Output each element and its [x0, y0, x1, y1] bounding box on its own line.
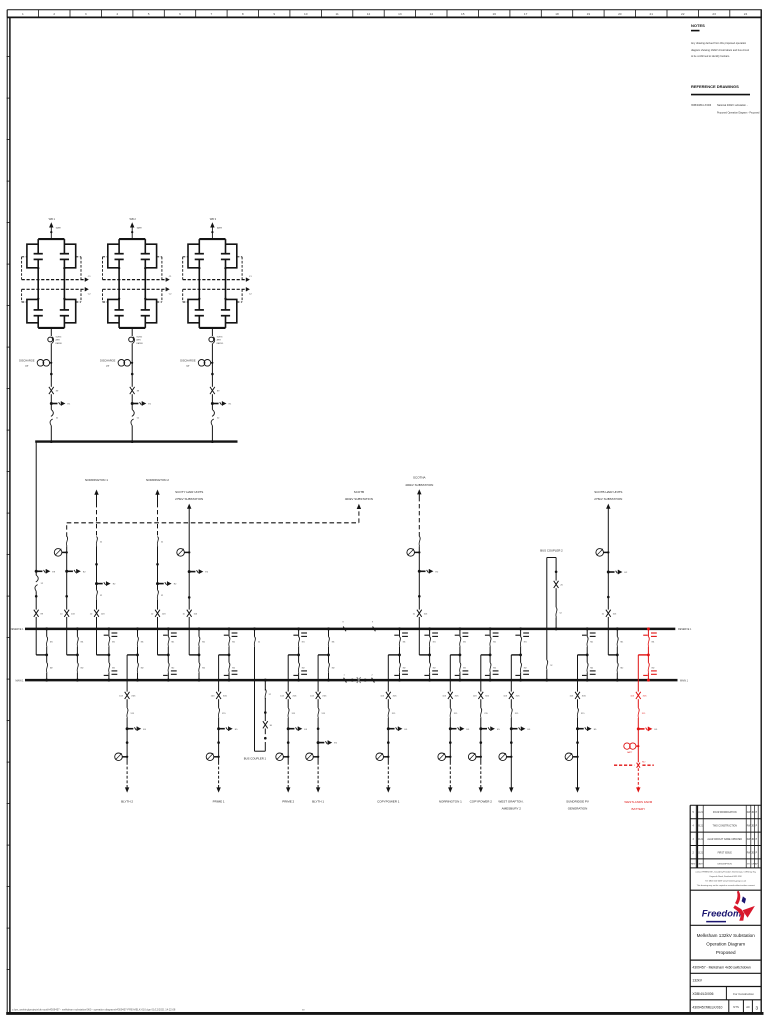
svg-text:NORRINGTON 1: NORRINGTON 1	[85, 478, 108, 482]
tee wire	[638, 654, 650, 657]
bypass loop upper R	[145, 244, 156, 268]
circuit breaker on SCOTNA feeder	[419, 536, 420, 546]
circuit breaker (red)	[638, 708, 646, 718]
unbalance CT line 1	[103, 276, 173, 282]
svg-text:BLYTH 1: BLYTH 1	[312, 799, 324, 803]
feeder wire	[480, 655, 482, 762]
selector wire	[489, 629, 491, 680]
svg-text:8: 8	[242, 12, 244, 16]
circuit COPYPOWER 2	[468, 655, 500, 803]
earth switch	[387, 727, 390, 730]
bus isolator lower	[648, 663, 655, 673]
wire to bank busbar	[131, 426, 133, 442]
svg-text:24: 24	[744, 12, 748, 16]
svg-text:275kV SUBSTATION: 275kV SUBSTATION	[594, 497, 622, 501]
bus isolator upper	[490, 637, 497, 647]
selector wire	[228, 629, 230, 680]
node on reserve bus	[586, 627, 589, 630]
node	[156, 563, 159, 566]
svg-text:16: 16	[492, 12, 496, 16]
circuit COPYPOWER 1	[376, 655, 408, 803]
svg-text:SCOTB: SCOTB	[354, 490, 364, 494]
bus isolator upper	[429, 637, 436, 647]
svg-text:7: 7	[211, 12, 213, 16]
capacitor CL2 branch	[115, 299, 124, 328]
VT tap upper	[515, 633, 529, 636]
svg-text:JD: JD	[751, 839, 754, 841]
node	[37, 267, 39, 269]
mid branch wire	[37, 268, 39, 299]
svg-text:13: 13	[398, 12, 402, 16]
bus isolator upper	[399, 637, 406, 647]
svg-text:15: 15	[461, 12, 465, 16]
svg-text:COPYPOWER 2: COPYPOWER 2	[470, 799, 493, 803]
svg-text:COPYPOWER 1: COPYPOWER 1	[377, 799, 400, 803]
bus isolator upper	[77, 637, 84, 647]
tee wire	[36, 654, 48, 657]
selector wire	[586, 629, 588, 680]
tee wire	[318, 654, 330, 657]
bus coupler 1	[244, 627, 273, 760]
earth switch	[211, 402, 214, 405]
earth switch	[156, 582, 159, 585]
svg-text:9: 9	[273, 12, 275, 16]
circuit WEST GRAFTON	[498, 655, 531, 810]
node	[387, 741, 390, 744]
node on reserve bus	[167, 627, 170, 630]
surge arrester	[209, 336, 224, 344]
bypass loop upper L	[27, 244, 38, 268]
svg-text:RATED: RATED	[217, 342, 224, 345]
node	[576, 741, 579, 744]
disconnector COPYPOWER 1-X	[380, 692, 397, 699]
cable tail	[317, 762, 319, 788]
VT tap lower	[394, 671, 408, 676]
node	[211, 231, 213, 233]
voltage row	[690, 979, 761, 987]
svg-text:BUS COUPLER 2: BUS COUPLER 2	[540, 549, 563, 553]
svg-text:FOUR MODIFICATION: FOUR MODIFICATION	[713, 811, 737, 814]
bus isolator upper	[587, 637, 594, 647]
disconnector WB 3-D1	[210, 387, 220, 394]
feeder wire	[510, 655, 512, 762]
node	[211, 373, 214, 376]
bus isolator lower	[229, 663, 236, 673]
svg-text:4309457 - Melksham 4x60 switch: 4309457 - Melksham 4x60 switchdown	[692, 965, 751, 969]
unbalance zone lower (dashed)	[103, 289, 162, 302]
circuit breaker	[577, 708, 585, 718]
disconnector NORRINGTON 2-X	[151, 610, 166, 617]
mid branch wire	[63, 268, 65, 299]
current transformer	[596, 549, 604, 557]
bottom link bar	[199, 327, 225, 329]
circuit WESTLANDS FARM BATTERY (red)	[614, 655, 658, 811]
node on reserve bus	[616, 627, 619, 630]
capacitor CR2 branch	[60, 299, 69, 328]
capacitor bank WB 2	[100, 217, 172, 443]
wire	[50, 343, 52, 362]
capacitor CR1 branch	[60, 239, 69, 268]
node	[144, 298, 146, 300]
svg-text:Proposed Operation Diagram - P: Proposed Operation Diagram - Proposed	[717, 111, 760, 114]
node on main bus	[458, 679, 461, 682]
discharge VT	[100, 359, 133, 368]
svg-text:WB 1: WB 1	[49, 217, 56, 221]
node on main bus	[136, 679, 139, 682]
circuit SCOTNA 400kV	[407, 546, 439, 655]
node on reserve bus	[458, 627, 461, 630]
bus selector bay bay NORRINGTON 1	[97, 627, 118, 681]
selector wire	[76, 629, 78, 680]
svg-text:ARR: ARR	[217, 339, 222, 342]
bus isolator upper	[520, 637, 527, 647]
svg-text:SURG: SURG	[217, 336, 223, 338]
selector wire	[399, 629, 401, 680]
node on reserve bus	[519, 627, 522, 630]
wire	[211, 343, 213, 362]
svg-text:132kV: 132kV	[692, 979, 702, 983]
svg-text:Any drawing derived from this: Any drawing derived from this proposed o…	[691, 42, 747, 45]
circuit SCOTY HAIR UNITS head	[175, 490, 203, 509]
disconnector SCOTNA 400kV-X	[413, 610, 428, 617]
node	[264, 711, 267, 714]
node on main bus	[45, 679, 48, 682]
svg-text:BATTERY: BATTERY	[632, 807, 646, 811]
feeder wire	[211, 328, 213, 336]
svg-text:09.21: 09.21	[697, 826, 703, 828]
circuit tie feeder	[54, 546, 86, 655]
node on main bus	[228, 679, 231, 682]
circuit breaker	[157, 590, 164, 600]
bus isolator lower	[460, 663, 467, 673]
notes heading	[691, 23, 705, 30]
cable tail	[126, 762, 128, 788]
selector wire	[459, 629, 461, 680]
notes text	[691, 42, 749, 58]
svg-text:SCOTB HAIR UNITS: SCOTB HAIR UNITS	[594, 490, 622, 494]
node	[224, 267, 226, 269]
disconnector SUNDRIDGE PV-X	[570, 692, 587, 699]
coupler loop wire	[547, 558, 556, 681]
tee wire	[511, 654, 522, 657]
VT tap upper	[394, 633, 408, 636]
incomer arrow	[210, 222, 214, 227]
bus selector bay bay NORRINGTON	[450, 627, 468, 681]
svg-text:DATE: DATE	[698, 863, 704, 866]
node on reserve bus	[398, 627, 401, 630]
selector wire	[520, 629, 522, 680]
coupler loop wire	[255, 629, 266, 751]
VT tap upper	[424, 633, 438, 636]
tee wire	[481, 654, 492, 657]
bypass loop lower R	[64, 299, 75, 322]
circuit NORRINGTON 1 fdr	[438, 655, 470, 803]
svg-text:SCOTY HAIR UNITS: SCOTY HAIR UNITS	[175, 490, 203, 494]
svg-text:22: 22	[681, 12, 685, 16]
unbalance CT line 2	[183, 287, 253, 295]
bottom link bar	[38, 327, 64, 329]
VT tap lower	[455, 671, 469, 676]
capacitor CL1 branch	[34, 239, 43, 268]
circuit breaker	[96, 590, 103, 600]
svg-text:SUNDRIDGE PV: SUNDRIDGE PV	[566, 799, 589, 803]
svg-text:NTS: NTS	[733, 1005, 739, 1009]
selector wire	[137, 629, 139, 680]
cable tail	[218, 762, 220, 788]
selector wire	[616, 629, 618, 680]
circuit breaker coupler2	[556, 607, 563, 617]
disconnector PRIME 2-X	[280, 692, 297, 699]
svg-text:FIRST ISSUE: FIRST ISSUE	[718, 852, 733, 854]
svg-text:MAIN 1: MAIN 1	[680, 679, 689, 682]
bus selector bay bay PRIME 2	[288, 627, 307, 681]
bypass loop upper R	[226, 244, 237, 268]
earth switch	[449, 727, 452, 730]
tie line to SCOTB 400kV (dashed)	[67, 490, 373, 537]
open point dashed tie (red)	[614, 761, 654, 767]
disconnector WB 2-D1	[130, 387, 140, 394]
bypass loop upper L	[108, 244, 119, 268]
disconnector tie feeder-X	[60, 610, 75, 617]
bus isolator upper	[460, 637, 467, 647]
svg-text:RATED: RATED	[136, 342, 143, 345]
bypass loop lower L	[188, 299, 199, 322]
capacitor CL1 branch	[195, 239, 204, 268]
current transformer	[468, 753, 476, 761]
svg-text:SCOTNA: SCOTNA	[413, 476, 426, 480]
capacitor bank busbar	[35, 440, 237, 442]
bus isolator lower	[520, 663, 527, 673]
unbalance zone upper (dashed)	[103, 257, 162, 280]
svg-text:03.21: 03.21	[697, 852, 703, 854]
circuit NORRINGTON 2	[151, 536, 177, 655]
disconnector coupler2-X	[554, 581, 564, 588]
current transformer	[177, 549, 185, 557]
bus isolator lower	[490, 663, 497, 673]
bus isolator upper	[46, 637, 53, 647]
capacitor CL2 branch	[34, 299, 43, 328]
earth switch	[126, 727, 129, 730]
node on reserve bus	[253, 627, 256, 630]
incomer arrow	[49, 222, 53, 227]
node on main bus	[198, 679, 201, 682]
disconnector COPYPOWER 2-X	[473, 692, 490, 699]
tee wire	[67, 654, 79, 657]
current transformer	[499, 753, 507, 761]
disconnector coupler1-X	[263, 721, 273, 728]
bypass loop lower R	[145, 299, 156, 322]
wire	[131, 394, 133, 409]
top ruler scale	[7, 10, 761, 18]
tee wire	[419, 654, 431, 657]
circuit NORRINGTON 1 head	[85, 478, 108, 537]
selector wire	[167, 629, 169, 680]
circuit BLYTH 2	[115, 655, 147, 803]
node	[555, 571, 558, 574]
circuit NORRINGTON 1	[90, 536, 116, 655]
bus isolator upper	[168, 637, 175, 647]
feeder arrow	[316, 787, 320, 792]
svg-text:21: 21	[649, 12, 653, 16]
unbalance CT line 1	[22, 276, 92, 282]
node	[188, 596, 191, 599]
tee wire	[158, 654, 170, 657]
circuit SCOTY HAIR UNITS	[177, 507, 209, 655]
bus selector bay bay WESTLANDS (red)	[638, 627, 657, 681]
node on reserve bus	[107, 627, 110, 630]
svg-text:23: 23	[712, 12, 716, 16]
capacitor CL2 branch	[195, 299, 204, 328]
bus isolator upper	[298, 637, 305, 647]
disconnector BLYTH 1-X	[310, 692, 327, 699]
feeder arrow	[479, 787, 483, 792]
VT tap lower	[224, 671, 238, 676]
bus section disconnector lower	[343, 675, 374, 683]
feeder wire	[287, 655, 289, 762]
disconnector SCOTY HAIR UNITS-X	[182, 610, 197, 617]
node on main bus	[647, 679, 650, 682]
tee wire	[578, 654, 589, 657]
circuit BLYTH 1	[306, 655, 338, 803]
unbalance zone upper (dashed)	[183, 257, 242, 280]
svg-text:ALAR CIRCUIT NAME UPDATED: ALAR CIRCUIT NAME UPDATED	[707, 838, 742, 841]
svg-text:Operation Diagram: Operation Diagram	[706, 941, 745, 946]
svg-text:BLYTH 2: BLYTH 2	[121, 799, 133, 803]
current transformer	[306, 753, 314, 761]
svg-text:4309457/MELK/010: 4309457/MELK/010	[692, 1006, 722, 1010]
capacitor CL1 branch	[115, 239, 124, 268]
svg-text:NO: NO	[642, 761, 646, 763]
bus isolator upper	[648, 637, 655, 647]
svg-text:REV: REV	[691, 864, 696, 866]
circuit breaker WB 1-CB	[50, 410, 59, 426]
earth switch	[35, 570, 38, 573]
selector wire	[46, 629, 48, 680]
circuit breaker	[96, 536, 103, 546]
unbalance zone lower (dashed)	[22, 289, 81, 302]
feeder wire	[387, 655, 389, 762]
bus isolator lower	[199, 663, 206, 673]
feeder wire	[126, 655, 128, 762]
unbalance zone lower (dashed)	[183, 289, 242, 302]
circuit breaker	[127, 708, 135, 718]
revision table	[690, 805, 761, 868]
node on main bus	[327, 679, 330, 682]
feeder wire	[577, 655, 579, 762]
current transformer	[115, 753, 123, 761]
svg-text:VT: VT	[106, 364, 110, 368]
svg-text:4: 4	[116, 12, 118, 16]
node	[50, 231, 52, 233]
svg-text:5: 5	[148, 12, 150, 16]
unbalance CT line 2	[103, 287, 173, 295]
earth switch	[65, 570, 68, 573]
tee wire	[450, 654, 461, 657]
feeder arrow	[125, 787, 129, 792]
circuit breaker	[288, 708, 296, 718]
bus selector bay bay BLYTH 1	[318, 627, 335, 681]
bypass loop lower R	[226, 299, 237, 322]
node on reserve bus	[489, 627, 492, 630]
VT tap upper	[224, 633, 238, 636]
earth switch	[287, 727, 290, 730]
current transformer	[438, 753, 446, 761]
bus coupler 2	[540, 549, 563, 682]
node	[126, 741, 129, 744]
circuit breaker	[481, 708, 489, 718]
VT tap upper	[293, 633, 307, 636]
capacitor CR1 branch	[221, 239, 230, 268]
tee wire	[97, 654, 111, 657]
svg-text:10: 10	[304, 12, 308, 16]
VT tap lower	[643, 671, 657, 676]
svg-text:400kV SUBSTATION: 400kV SUBSTATION	[345, 497, 373, 501]
VT tap upper	[163, 633, 177, 636]
node on reserve bus	[76, 627, 79, 630]
tee wire	[219, 654, 231, 657]
svg-text:WB 2: WB 2	[130, 217, 137, 221]
svg-text:JD: JD	[751, 812, 754, 814]
circuit breaker WB 2-CB	[131, 410, 140, 426]
VT tap lower	[293, 671, 307, 676]
svg-text:VT: VT	[186, 364, 190, 368]
drawing title	[690, 933, 761, 960]
disconnector NORRINGTON 1 fdr-X	[442, 692, 459, 699]
svg-text:2: 2	[53, 12, 55, 16]
top link bar	[38, 238, 64, 240]
incomer arrow	[130, 222, 134, 227]
selector wire	[647, 629, 649, 680]
current transformer	[206, 753, 214, 761]
feeder arrow	[386, 787, 390, 792]
VT tap upper	[104, 633, 118, 636]
bypass loop lower L	[27, 299, 38, 322]
capacitor bank WB 3	[180, 217, 252, 443]
earth switch	[50, 402, 53, 405]
circuit SUNDRIDGE PV	[565, 655, 597, 810]
VT tap lower	[515, 671, 529, 676]
bus selector bay bay SCOTY	[189, 627, 206, 681]
svg-text:DISCHARGE: DISCHARGE	[180, 359, 196, 363]
svg-text:DESCRIPTION: DESCRIPTION	[718, 864, 733, 866]
node	[449, 741, 452, 744]
capacitor CR1 branch	[141, 239, 150, 268]
earth switch (red)	[637, 727, 640, 730]
busbar RESERVE (upper)	[10, 628, 692, 631]
svg-text:18: 18	[555, 12, 559, 16]
capacitor CR2 branch	[141, 299, 150, 328]
left ruler ticks	[7, 57, 11, 970]
svg-text:NORRINGTON 2: NORRINGTON 2	[146, 478, 169, 482]
label (red)	[624, 800, 652, 811]
bus selector bay bay SCOTB HAIR	[608, 627, 624, 681]
earth switch	[317, 741, 320, 744]
node	[118, 267, 120, 269]
node	[131, 231, 133, 233]
bus selector bay bay 1	[36, 627, 53, 681]
svg-text:Keynorth Road, Southwick BS1: Keynorth Road, Southwick BS1 5DF	[710, 875, 743, 878]
node on reserve bus	[45, 627, 48, 630]
feeder wire	[218, 655, 220, 762]
bus selector bay bay SCOTNA	[419, 627, 438, 681]
circuit SCOTNA 400kV head	[405, 476, 433, 537]
circuit NORRINGTON 2 head	[146, 478, 169, 537]
bus selector bay bay PRIME 1	[219, 627, 238, 681]
earth switch	[131, 402, 134, 405]
node	[65, 595, 68, 598]
bus isolator upper	[328, 637, 335, 647]
svg-text:PRIME 2: PRIME 2	[282, 799, 294, 803]
